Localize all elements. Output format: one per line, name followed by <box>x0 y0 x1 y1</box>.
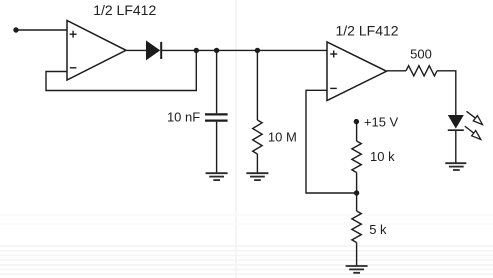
wire R4 to ground <box>356 243 358 267</box>
svg-text:1/2 LF412: 1/2 LF412 <box>93 2 156 18</box>
ground under R1 <box>246 173 268 180</box>
resistor R3 10 k zigzag <box>352 141 361 173</box>
wire U1 output to diode <box>126 49 146 51</box>
LED D2 cathode bar <box>448 129 464 131</box>
op-amp U2 minus symbol <box>330 87 337 89</box>
node A junction dot <box>194 48 199 53</box>
wire R1 to ground <box>256 154 258 173</box>
wire node B down to capacitor C1 <box>216 50 218 113</box>
wire capacitor to ground <box>216 122 218 174</box>
wire U2 minus input to divider node <box>306 90 357 193</box>
LED D2 triangle <box>448 115 464 129</box>
svg-text:10 M: 10 M <box>268 129 297 144</box>
wire input to op-amp U1 + <box>16 29 67 31</box>
wire LED to ground <box>455 130 457 163</box>
ground bottom <box>346 266 368 273</box>
op-amp U1 plus symbol <box>70 31 77 38</box>
op-amp U1 minus symbol <box>70 67 77 69</box>
svg-text:5 k: 5 k <box>369 222 387 237</box>
capacitor C1 plates <box>205 114 228 120</box>
LED light arrow 2 <box>465 126 481 139</box>
diode D1 cathode bar <box>160 42 162 59</box>
wire +15V to resistor R3 <box>356 121 358 141</box>
feedback wire U1 minus to node A <box>46 50 196 90</box>
scan artifact vertical line <box>235 0 237 278</box>
resistor R2 500 zigzag <box>406 66 437 76</box>
wire diode to op-amp U2 + input <box>161 49 327 51</box>
wire R2 to LED <box>437 71 456 115</box>
resistor R1 10 M zigzag <box>253 120 262 154</box>
svg-text:+15 V: +15 V <box>364 114 399 129</box>
wire node C down to resistor R1 <box>256 50 258 120</box>
input terminal node <box>13 27 18 32</box>
+15 V supply terminal <box>354 119 359 124</box>
node B junction dot (capacitor tap) <box>214 48 219 53</box>
op-amp U2 plus symbol <box>330 51 337 58</box>
op-amp U2 <box>327 42 387 101</box>
ground under capacitor <box>206 173 228 180</box>
ground under LED <box>445 163 466 170</box>
resistor R4 5 k zigzag <box>352 211 361 243</box>
svg-text:1/2 LF412: 1/2 LF412 <box>336 23 399 39</box>
scan artifact horizontal lines <box>0 215 493 274</box>
wire R3 to divider node <box>356 173 358 212</box>
svg-text:500: 500 <box>410 46 432 61</box>
node C junction dot (10 M tap) <box>255 48 260 53</box>
svg-text:10 k: 10 k <box>370 149 395 164</box>
wire U2 output to resistor R2 <box>387 70 407 72</box>
diode D1 <box>146 40 160 60</box>
LED light arrow 1 <box>467 111 483 124</box>
svg-text:10 nF: 10 nF <box>167 110 200 125</box>
op-amp U1 <box>67 21 126 81</box>
divider node junction dot <box>354 190 359 195</box>
